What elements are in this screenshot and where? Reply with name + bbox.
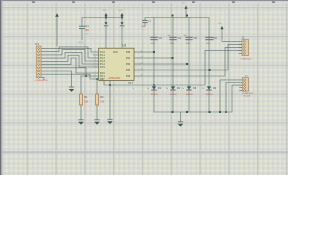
window chrome left strip (0, 0, 1, 175)
wire RST pull (81, 75, 93, 77)
node w70 (209, 69, 211, 71)
svg-text:CONN-SIL5: CONN-SIL5 (241, 59, 253, 61)
svg-text:U1: U1 (123, 43, 127, 47)
wire IC right pins (140, 44, 242, 76)
wire fan conn-IC (42, 47, 94, 87)
svg-text:P1.0: P1.0 (100, 52, 105, 54)
svg-text:1N4148: 1N4148 (186, 94, 194, 96)
node fan-r2 (96, 78, 98, 80)
node w58 (172, 57, 174, 59)
node br2 (186, 111, 188, 113)
blue sheet border bottom (2, 151, 288, 154)
svg-text:+88.8: +88.8 (102, 10, 108, 12)
node rail-xa (105, 17, 107, 19)
svg-text:P3.0: P3.0 (100, 73, 105, 75)
pin stubs left (93, 52, 99, 79)
svg-text:100n: 100n (186, 43, 192, 45)
wire J3 pin1 (220, 80, 242, 112)
capacitor C4 (168, 35, 182, 45)
power arrow XTAL-B (118, 10, 124, 22)
ground G4 (178, 112, 184, 127)
ground G-R2 (94, 120, 100, 125)
svg-text:AT89C2051: AT89C2051 (109, 77, 122, 80)
capacitor C1 (80, 24, 90, 40)
svg-text:P1: P1 (36, 42, 40, 46)
diode DB (120, 22, 124, 48)
svg-text:100n: 100n (141, 26, 147, 28)
svg-text:1N4148: 1N4148 (151, 94, 159, 96)
diode D1 (147, 86, 162, 96)
svg-text:P3.1: P3.1 (100, 76, 105, 78)
svg-text:1N4148: 1N4148 (170, 94, 178, 96)
node w52 (153, 51, 155, 53)
wire IC bottom to J2 (104, 50, 242, 119)
svg-text:2x: 2x (182, 88, 184, 90)
node rail-xb (121, 17, 123, 19)
window chrome top strip (0, 0, 288, 1)
svg-text:CONN-SIL10: CONN-SIL10 (35, 80, 49, 82)
svg-text:P32: P32 (126, 64, 131, 66)
node w64 (186, 63, 188, 65)
connector J2 (239, 37, 252, 61)
svg-text:P1.3: P1.3 (100, 61, 105, 63)
node icb1 (109, 84, 111, 86)
svg-text:+88.8: +88.8 (118, 10, 124, 12)
node rail5-a (172, 15, 174, 17)
IC U1 (93, 43, 143, 81)
svg-text:P3.2: P3.2 (79, 42, 85, 45)
power arrow XTAL-A (102, 10, 108, 22)
svg-text:P30: P30 (126, 52, 131, 54)
connector P1 (35, 42, 49, 82)
node br1 (172, 111, 174, 113)
node br3 (209, 111, 211, 113)
power terminal VCC left (55, 13, 59, 46)
wire top rail left (82, 18, 122, 27)
node br4 (219, 111, 221, 113)
power rail +5V right (154, 2, 209, 37)
ground G-R1 (78, 120, 84, 125)
svg-text:RST: RST (100, 79, 105, 81)
svg-text:C1: C1 (85, 24, 89, 28)
svg-text:ln: ln (133, 88, 135, 90)
capacitor C6 (206, 37, 218, 45)
node rail5-b (186, 15, 188, 17)
resistor R1 (80, 76, 89, 120)
capacitor C2 small (141, 18, 154, 28)
svg-text:+5V: +5V (181, 2, 185, 4)
resistor R2 (96, 79, 105, 120)
svg-text:P33: P33 (126, 70, 131, 72)
capacitor C5 (184, 35, 198, 45)
svg-text:VCC: VCC (113, 52, 118, 54)
svg-text:P31: P31 (126, 58, 131, 60)
connector J3 (240, 75, 254, 97)
svg-text:2x: 2x (147, 88, 149, 90)
svg-text:10u: 10u (184, 35, 187, 37)
ground G3 (107, 119, 113, 124)
svg-text:P34: P34 (126, 76, 131, 78)
node icb2 (153, 84, 155, 86)
wire J3 pin3 (232, 85, 242, 112)
ground G1 (69, 87, 75, 92)
power arrow J2 (218, 23, 243, 41)
node j3b (225, 111, 227, 113)
svg-text:100n: 100n (170, 43, 176, 45)
diode D2 (166, 86, 181, 96)
svg-text:100n: 100n (151, 43, 157, 45)
capacitor C3 (151, 37, 163, 45)
svg-text:SIL-156: SIL-156 (244, 96, 251, 98)
svg-text:P3.7: P3.7 (129, 83, 134, 85)
svg-text:P1.5: P1.5 (100, 67, 105, 69)
svg-text:100n: 100n (206, 43, 212, 45)
svg-text:+5V: +5V (218, 23, 222, 25)
svg-text:1N4148: 1N4148 (206, 94, 214, 96)
diode DA (104, 22, 108, 48)
diode D4 (202, 86, 217, 96)
svg-text:P1.4: P1.4 (100, 64, 105, 66)
pin stubs right (134, 52, 140, 76)
sheet background grid (0, 0, 288, 175)
svg-text:2x: 2x (202, 88, 204, 90)
wire bottom rail (154, 111, 232, 113)
column verticals (154, 18, 209, 113)
svg-text:P1.2: P1.2 (100, 58, 105, 60)
svg-text:2x: 2x (166, 88, 168, 90)
svg-text:10u: 10u (168, 35, 171, 37)
wire J3 pin2 (226, 83, 242, 113)
svg-text:CONN-SIL5: CONN-SIL5 (242, 93, 254, 95)
node fan-r1 (85, 75, 87, 77)
svg-text:P1.1: P1.1 (100, 55, 105, 57)
diode D3 (182, 86, 197, 96)
